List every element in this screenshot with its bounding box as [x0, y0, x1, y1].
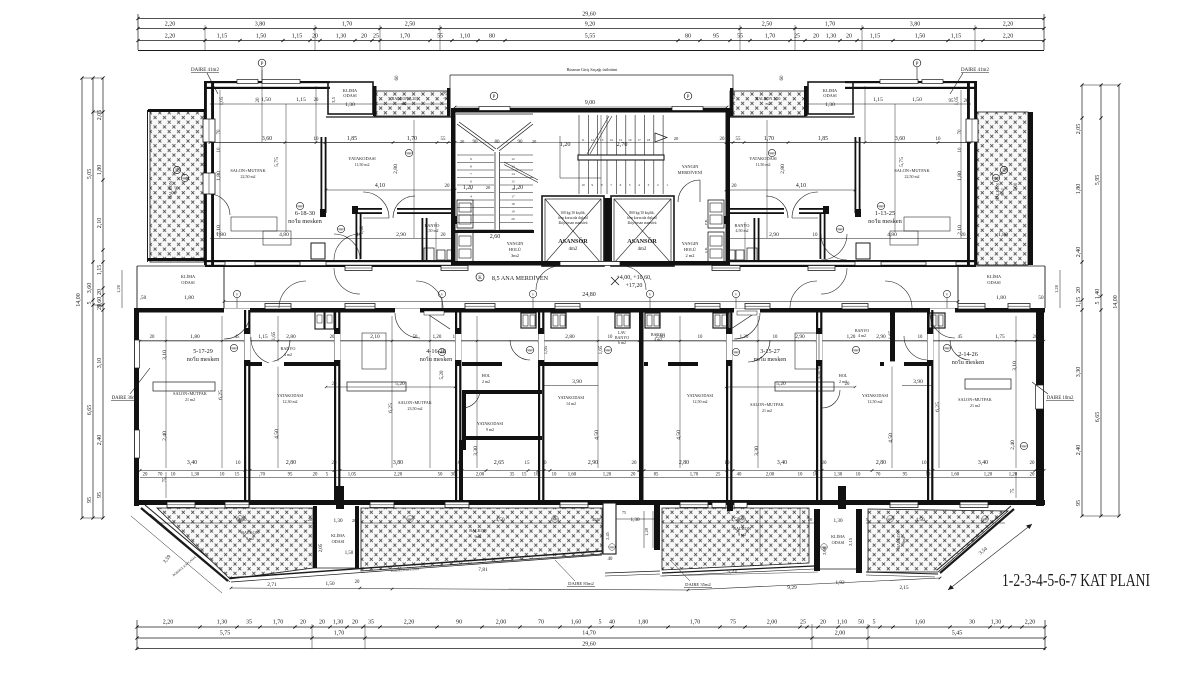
svg-text:60: 60: [780, 75, 785, 81]
svg-text:ODASI: ODASI: [823, 93, 837, 98]
top dim drop lines: [204, 25, 206, 50]
svg-text:75: 75: [1011, 488, 1016, 494]
svg-text:ODASI: ODASI: [987, 280, 1001, 285]
right dim column connectors: [1082, 84, 1119, 86]
svg-text:1,15: 1,15: [296, 97, 306, 103]
wall upper-left apartment outer: [204, 81, 207, 265]
fire stair bottom wall: [454, 230, 534, 233]
svg-text:3,90: 3,90: [913, 379, 923, 385]
lower block bottom wall: [137, 500, 1045, 505]
svg-text:4,80: 4,80: [279, 232, 289, 238]
svg-text:7: 7: [470, 172, 472, 176]
dim chain upper-left y142: [210, 142, 455, 144]
balcony D bottom rail: [662, 566, 814, 573]
wall yatak bottom upper-right: [799, 208, 825, 210]
svg-text:KLİMA: KLİMA: [831, 534, 845, 539]
svg-text:85: 85: [654, 473, 659, 478]
wall yatak top upper-left: [326, 116, 455, 118]
core top wall: [451, 108, 730, 113]
svg-text:no'lu mesken: no'lu mesken: [868, 218, 902, 225]
balcony hatch upper-left BALKON 9m2: [150, 110, 204, 262]
balcony C bottom rail: [605, 571, 660, 573]
svg-text:1,20: 1,20: [732, 90, 737, 99]
svg-text:20: 20: [314, 98, 319, 103]
wall apartment divider G: [927, 310, 929, 500]
wall upper-right apartment top: [845, 81, 976, 83]
svg-text:20: 20: [808, 517, 813, 522]
door jamb blocks upper-right: [823, 206, 829, 214]
svg-text:1,40: 1,40: [1095, 289, 1101, 300]
svg-text:80: 80: [685, 34, 691, 40]
svg-text:75: 75: [730, 620, 736, 626]
svg-text:1,80: 1,80: [996, 295, 1006, 301]
svg-text:19: 19: [511, 210, 515, 214]
svg-text:10: 10: [698, 335, 703, 340]
svg-text:95: 95: [97, 492, 103, 498]
svg-text:K: K: [175, 169, 179, 174]
door arc corridor center-right: [622, 266, 646, 290]
top border line: [138, 50, 1044, 52]
svg-text:06: 06: [611, 545, 615, 549]
svg-text:06: 06: [183, 177, 187, 181]
svg-text:60: 60: [395, 75, 400, 81]
fixtures banyo upper-left: [424, 248, 434, 261]
svg-text:10: 10: [725, 461, 731, 466]
svg-text:20: 20: [846, 34, 852, 40]
svg-text:1,15: 1,15: [951, 34, 962, 40]
svg-text:4,50: 4,50: [730, 517, 739, 523]
dim diagonal 3,59 bottom-left: [131, 516, 222, 593]
svg-text:06: 06: [823, 545, 827, 549]
svg-text:7,81: 7,81: [478, 567, 488, 573]
svg-text:20: 20: [822, 461, 828, 466]
hall wall upper-right apartment: [820, 214, 822, 259]
symbol P circle upper-right: [913, 59, 921, 67]
svg-text:06: 06: [994, 177, 998, 181]
svg-text:2,90: 2,90: [769, 232, 779, 238]
svg-text:1,50: 1,50: [261, 97, 271, 103]
svg-text:1,65: 1,65: [889, 330, 894, 339]
kitchen counter apt3: [775, 382, 834, 391]
svg-text:10: 10: [171, 473, 176, 478]
svg-text:4,50: 4,50: [915, 517, 924, 523]
svg-text:20: 20: [632, 461, 638, 466]
svg-text:1,15: 1,15: [217, 34, 228, 40]
svg-text:5,00: 5,00: [1014, 182, 1019, 191]
svg-text:50: 50: [858, 620, 864, 626]
svg-text:1,20: 1,20: [740, 335, 749, 340]
corridor top line left: [137, 265, 205, 267]
klima odasi room corridor left: [136, 266, 138, 308]
balcony hatch bottom D: [868, 509, 1008, 572]
bottom dim drop lines: [311, 624, 313, 649]
klima odasi box bottom right: [814, 509, 820, 571]
svg-text:5: 5: [87, 302, 93, 305]
svg-text:Ç.B.: Ç.B.: [704, 247, 708, 253]
svg-text:70: 70: [958, 129, 963, 135]
svg-text:4,10: 4,10: [375, 183, 385, 189]
svg-text:10: 10: [813, 473, 818, 478]
door arc fire hall right: [678, 180, 700, 202]
svg-text:YATAKODASI: YATAKODASI: [477, 421, 504, 426]
svg-text:P: P: [493, 95, 496, 100]
witness vertical upper apartments extra: [435, 222, 437, 262]
svg-text:4,10: 4,10: [796, 183, 806, 189]
wall upper-right balcony edge: [1028, 112, 1033, 265]
svg-text:70: 70: [217, 129, 222, 135]
entry door arcs upper-left: [334, 234, 360, 260]
svg-text:4,50: 4,50: [495, 517, 504, 523]
svg-text:50: 50: [438, 473, 443, 478]
svg-text:HOLÜ: HOLÜ: [684, 247, 697, 252]
svg-text:15: 15: [525, 461, 531, 466]
svg-text:95: 95: [288, 473, 293, 478]
svg-text:17: 17: [511, 195, 515, 199]
svg-text:2,90: 2,90: [876, 334, 886, 340]
svg-text:6,65: 6,65: [87, 405, 93, 416]
svg-text:16: 16: [628, 138, 632, 142]
svg-text:2,20: 2,20: [1003, 34, 1014, 40]
svg-text:5-17-29: 5-17-29: [193, 348, 213, 355]
svg-text:1,30: 1,30: [825, 102, 835, 108]
svg-text:3,30: 3,30: [1076, 367, 1082, 378]
svg-text:5,20: 5,20: [439, 370, 445, 379]
svg-text:1,30: 1,30: [345, 102, 355, 108]
svg-text:1,15: 1,15: [873, 97, 883, 103]
svg-text:4,50: 4,50: [594, 430, 600, 440]
klima odasi box upper-right top: [808, 82, 853, 114]
door arc yatak apt4: [904, 336, 928, 360]
wall apartment divider D: [538, 310, 540, 500]
svg-text:1,85: 1,85: [347, 136, 357, 142]
svg-text:40: 40: [609, 620, 615, 626]
svg-text:5,75: 5,75: [220, 631, 231, 637]
left dimension column inner: [102, 78, 104, 518]
left dimension column middle: [92, 78, 94, 518]
svg-text:20: 20: [332, 461, 338, 466]
svg-text:10: 10: [542, 461, 548, 466]
svg-text:4,80: 4,80: [887, 232, 897, 238]
dim diagonal 3,54 bottom-right: [948, 524, 1032, 590]
svg-text:2,20: 2,20: [165, 22, 176, 28]
svg-text:1,15: 1,15: [258, 334, 268, 340]
svg-text:1,15: 1,15: [292, 34, 303, 40]
svg-text:1,50: 1,50: [912, 97, 922, 103]
svg-text:YATAKODASI: YATAKODASI: [348, 156, 376, 161]
svg-text:13: 13: [511, 165, 515, 169]
core right wall: [726, 108, 731, 266]
symbol P circle core left: [490, 92, 498, 100]
svg-text:DAIRE 35m2: DAIRE 35m2: [685, 582, 711, 587]
svg-text:1,05: 1,05: [955, 96, 960, 105]
closet outline apt3: [795, 333, 819, 369]
svg-text:m2: m2: [765, 101, 770, 106]
svg-text:3,10: 3,10: [1012, 361, 1018, 371]
svg-text:SALON+MUTFAK: SALON+MUTFAK: [894, 168, 930, 173]
svg-text:20: 20: [486, 185, 491, 190]
svg-text:06: 06: [854, 349, 858, 353]
svg-text:10: 10: [773, 335, 778, 340]
dim chain lower block y340 line: [140, 340, 1044, 342]
svg-text:1,10: 1,10: [837, 620, 848, 626]
svg-text:2,10: 2,10: [370, 334, 380, 340]
svg-text:SALON+MUTFAK: SALON+MUTFAK: [230, 168, 266, 173]
svg-text:1,50: 1,50: [325, 581, 334, 587]
dimension row 2 bottom: [137, 637, 1045, 639]
dim line y104 upper-left: [210, 103, 450, 105]
svg-text:4 m2: 4 m2: [858, 333, 866, 338]
svg-text:1,50: 1,50: [345, 551, 354, 556]
svg-text:9m2: 9m2: [474, 534, 481, 539]
svg-text:4kişi insan asansörü: 4kişi insan asansörü: [559, 221, 588, 225]
door arc salon upper-right: [792, 192, 818, 218]
svg-text:2,80: 2,80: [679, 460, 689, 466]
witness lines vertical upper block: [219, 90, 221, 238]
svg-text:55: 55: [736, 137, 742, 142]
svg-text:25: 25: [716, 473, 721, 478]
svg-text:3,10: 3,10: [97, 358, 103, 369]
svg-text:06: 06: [407, 152, 411, 156]
svg-text:3,40: 3,40: [978, 460, 988, 466]
svg-text:5,95: 5,95: [1095, 175, 1101, 186]
door arcs corridor entries: [279, 281, 306, 308]
witness lines hatch C: [759, 509, 761, 553]
svg-text:6,25: 6,25: [218, 390, 224, 400]
svg-text:1,15: 1,15: [1076, 297, 1082, 308]
main stair witness vertical: [600, 115, 602, 194]
svg-text:6,25: 6,25: [388, 403, 394, 413]
svg-text:20: 20: [845, 382, 850, 387]
svg-text:20: 20: [1030, 461, 1036, 466]
svg-text:50: 50: [413, 335, 418, 340]
svg-text:20: 20: [332, 382, 337, 387]
svg-text:10: 10: [922, 461, 928, 466]
closet outline apt2: [362, 333, 386, 369]
svg-text:4 m2: 4 m2: [284, 352, 292, 357]
svg-text:20: 20: [720, 137, 726, 142]
svg-text:KLİMA: KLİMA: [987, 274, 1002, 279]
svg-text:1,70: 1,70: [690, 473, 699, 478]
svg-text:9m2: 9m2: [901, 536, 906, 543]
fixtures banyo upper-right: [747, 248, 757, 261]
wall apartment divider C: [455, 310, 457, 500]
svg-text:13: 13: [600, 138, 604, 142]
svg-text:1,10: 1,10: [460, 34, 471, 40]
shaft boxes left of core: [457, 200, 473, 228]
svg-text:no'lu mesken: no'lu mesken: [187, 356, 220, 363]
wall salon-yatak divider upper-left: [321, 137, 323, 213]
svg-text:20: 20: [1033, 335, 1038, 340]
svg-text:95: 95: [903, 473, 908, 478]
bottom band dimension line: [231, 588, 688, 590]
svg-text:1,30: 1,30: [191, 473, 200, 478]
svg-text:YANGIN: YANGIN: [682, 241, 700, 246]
upper block window boxes on bottom wall: [345, 266, 372, 271]
svg-text:5: 5: [599, 620, 602, 626]
wall upper-left balcony edge: [147, 110, 149, 262]
door leaf entry apt3: [731, 313, 755, 329]
svg-text:10: 10: [581, 183, 585, 187]
kitchen counter upper-left salon: [231, 217, 277, 231]
svg-text:1,80: 1,80: [184, 295, 194, 301]
svg-text:F.B.: F.B.: [704, 219, 708, 225]
svg-text:6,65: 6,65: [1095, 412, 1101, 423]
svg-text:3,90: 3,90: [572, 379, 582, 385]
svg-text:2 m2: 2 m2: [482, 379, 490, 384]
svg-text:1,30: 1,30: [336, 34, 347, 40]
svg-text:5: 5: [873, 620, 876, 626]
dim line y104 upper-right: [731, 103, 971, 105]
shaft box on top wall left: [315, 312, 324, 329]
door arc balcony upper-left: [209, 194, 230, 215]
door leaf entry apt2: [426, 313, 450, 329]
stair landing bar center: [578, 155, 664, 160]
svg-text:2-14-26: 2-14-26: [958, 351, 978, 358]
wall banyo left upper-left: [422, 218, 424, 262]
svg-text:20: 20: [256, 97, 261, 103]
svg-text:2,15: 2,15: [899, 585, 908, 591]
svg-text:29,60: 29,60: [582, 642, 596, 648]
main stair well outline: [560, 136, 601, 178]
dimension row 3 top: [138, 40, 1044, 42]
svg-text:3,80: 3,80: [255, 22, 266, 28]
svg-text:1,80: 1,80: [638, 620, 649, 626]
svg-text:1,20: 1,20: [603, 473, 612, 478]
svg-text:10: 10: [936, 137, 942, 142]
svg-text:1,85: 1,85: [818, 136, 828, 142]
symbol P circle core right: [684, 92, 692, 100]
svg-text:m2: m2: [401, 101, 406, 106]
svg-text:2,40: 2,40: [97, 435, 103, 446]
balcony hatch upper-center-right BALKON 3,20m2: [730, 91, 806, 116]
circled symbols bottom band: [237, 516, 244, 523]
svg-text:20: 20: [361, 34, 367, 40]
wall yatak bottom upper-left: [356, 208, 382, 210]
svg-text:29,60: 29,60: [582, 12, 596, 18]
svg-text:2,20: 2,20: [1003, 22, 1014, 28]
svg-text:2,20: 2,20: [404, 620, 415, 626]
svg-text:20: 20: [820, 620, 826, 626]
wall stub top center-right: [804, 86, 808, 116]
svg-text:12: 12: [591, 138, 595, 142]
jamb blocks lower block doors: [245, 328, 251, 334]
svg-text:9 m2: 9 m2: [738, 532, 746, 537]
svg-text:1,20: 1,20: [463, 185, 473, 191]
circle symbols lower block rooms: [230, 344, 237, 351]
svg-text:2,00: 2,00: [476, 473, 485, 478]
svg-text:HOL: HOL: [482, 373, 491, 378]
svg-text:2,20: 2,20: [165, 34, 176, 40]
svg-text:10: 10: [958, 147, 963, 153]
wall upper block bottom left segment: [205, 260, 455, 262]
svg-text:1,70: 1,70: [407, 136, 417, 142]
svg-text:10: 10: [813, 233, 819, 238]
svg-text:6,25: 6,25: [935, 402, 941, 412]
svg-text:YATAKODASI: YATAKODASI: [862, 393, 889, 398]
svg-text:06: 06: [409, 517, 413, 521]
svg-text:YATAKODASI: YATAKODASI: [277, 393, 304, 398]
svg-text:6: 6: [470, 180, 472, 184]
svg-text:20: 20: [308, 517, 313, 522]
svg-text:1-13-25: 1-13-25: [875, 210, 895, 217]
fire stair upper-left winder: [456, 113, 533, 115]
core left wall: [451, 108, 456, 266]
svg-text:20: 20: [143, 473, 148, 478]
svg-text:1,05: 1,05: [348, 473, 357, 478]
svg-text:,50: ,50: [140, 295, 147, 301]
svg-text:2,05: 2,05: [1076, 124, 1082, 135]
svg-text:2,80: 2,80: [286, 334, 296, 340]
svg-text:20: 20: [319, 620, 325, 626]
kitchen counter apt1: [153, 382, 215, 391]
svg-text:06: 06: [770, 152, 774, 156]
fire stair handrail diagonal: [504, 162, 538, 180]
svg-text:ODASI: ODASI: [332, 539, 345, 544]
balcony hatch bottom B: [361, 508, 602, 571]
svg-text:10: 10: [552, 473, 557, 478]
svg-text:5,75: 5,75: [274, 157, 280, 167]
left dim column connectors: [82, 77, 103, 79]
door arcs lower block entries: [224, 313, 250, 339]
dim row bottom of upper-right apartment: [726, 238, 971, 240]
svg-text:no'lu mesken: no'lu mesken: [288, 218, 322, 225]
svg-text:20: 20: [1076, 287, 1082, 293]
dimension row total 29,60 top: [138, 18, 1044, 20]
svg-text:1,60: 1,60: [951, 473, 960, 478]
svg-text:KLİMA: KLİMA: [181, 274, 196, 279]
dimension row 2 top: [138, 28, 1044, 30]
svg-text:90: 90: [456, 620, 462, 626]
svg-text:ASANSÖR: ASANSÖR: [558, 238, 588, 245]
corridor top line right: [976, 265, 1045, 267]
svg-text:2,00: 2,00: [496, 620, 507, 626]
elevator left box ASANSOR: [542, 196, 604, 266]
svg-text:ASANSÖR: ASANSÖR: [627, 238, 657, 245]
svg-text:2,40: 2,40: [1076, 445, 1082, 456]
svg-text:20: 20: [460, 139, 465, 144]
svg-text:14: 14: [511, 172, 515, 176]
svg-text:1,30: 1,30: [630, 517, 639, 523]
svg-text:2,40: 2,40: [162, 431, 168, 441]
svg-text:25: 25: [800, 620, 806, 626]
svg-text:15: 15: [511, 180, 515, 184]
wall hol apt2: [462, 390, 542, 394]
svg-text:15: 15: [619, 138, 623, 142]
svg-text:2,80: 2,80: [565, 334, 575, 340]
svg-text:21 m2: 21 m2: [970, 403, 980, 408]
svg-text:10: 10: [608, 335, 613, 340]
svg-text:4,50: 4,50: [274, 429, 280, 439]
shaft box on top wall right: [713, 313, 729, 328]
dim line 5,20 apt2: [326, 386, 455, 388]
dim line 5,20 apt3: [726, 386, 855, 388]
middle zone pier white: [603, 503, 616, 554]
svg-text:2,10: 2,10: [97, 218, 103, 229]
balcony top wall upper-left: [148, 109, 204, 112]
entry niche box upper-left: [311, 243, 325, 259]
svg-text:20: 20: [441, 233, 447, 238]
svg-text:1,05: 1,05: [220, 96, 225, 105]
svg-text:2,60: 2,60: [490, 234, 501, 240]
dim line 4,10 upper-left: [326, 189, 455, 191]
svg-text:1,20: 1,20: [513, 185, 523, 191]
svg-text:15: 15: [235, 473, 240, 478]
svg-text:14: 14: [609, 138, 613, 142]
svg-text:2,40: 2,40: [1076, 247, 1082, 258]
wall apartment divider E: [726, 310, 728, 500]
svg-text:70: 70: [876, 473, 881, 478]
svg-text:55: 55: [441, 137, 447, 142]
